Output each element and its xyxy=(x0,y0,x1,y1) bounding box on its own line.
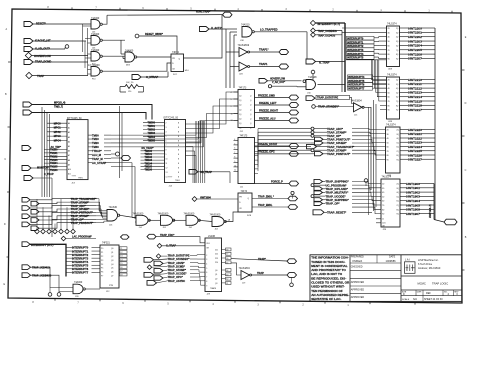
svg-text:RESET*: RESET* xyxy=(36,22,46,26)
svg-text:MPC2: MPC2 xyxy=(54,131,62,134)
wire+net labels HWT2 outputs of U09 xyxy=(400,26,436,60)
svg-text:INTERRUPT6: INTERRUPT6 xyxy=(72,267,89,271)
svg-text:Q3: Q3 xyxy=(111,260,113,262)
wire gate4 output to 74F74 xyxy=(103,63,172,71)
flip-flop 74F74 H10 xyxy=(171,51,189,76)
svg-text:TM505: TM505 xyxy=(148,139,156,142)
svg-text:HWT2207: HWT2207 xyxy=(408,57,422,61)
svg-text:TRAP_ENBL *: TRAP_ENBL * xyxy=(258,195,274,198)
wire RESET* to gate J06 xyxy=(33,23,91,25)
wire J15 output down the middle bus xyxy=(364,107,371,190)
svg-text:HWT2217: HWT2217 xyxy=(408,108,422,112)
svg-text:TRAP1*: TRAP1* xyxy=(259,48,269,52)
svg-text:P6: P6 xyxy=(101,272,103,274)
svg-text:2: 2 xyxy=(206,255,207,257)
svg-text:74AS1804: 74AS1804 xyxy=(239,267,251,270)
svg-text:A2: A2 xyxy=(68,131,70,134)
svg-text:TRAP*: TRAP* xyxy=(258,258,266,261)
net label LAC_PROGRAM* xyxy=(61,235,96,241)
svg-text:DATE: DATE xyxy=(389,256,396,259)
svg-text:TRAP_STAMP*: TRAP_STAMP* xyxy=(327,148,347,152)
svg-text:TM502: TM502 xyxy=(148,129,156,132)
net label stack TM100-TM106 xyxy=(44,146,67,172)
output connector TRAP* xyxy=(287,259,297,264)
svg-text:Q5: Q5 xyxy=(111,268,113,270)
input connector V_AD_OUT* xyxy=(24,47,50,52)
pin number boxes right of LS240 (lower) xyxy=(222,269,232,285)
wire TRAP_DATATYPE to buffer J15 xyxy=(350,97,354,103)
svg-text:74LS374: 74LS374 xyxy=(387,74,397,77)
wire+output connector FREEZE_RIGHT xyxy=(255,109,299,115)
svg-text:TRAP_DCMD*: TRAP_DCMD* xyxy=(168,264,185,268)
svg-text:TRAP_PRNTOUT*: TRAP_PRNTOUT* xyxy=(327,138,351,142)
svg-text:5: 5 xyxy=(166,136,167,138)
terminal above TRAP_ENBL* xyxy=(291,191,294,198)
input diamond C_TRAP bottom xyxy=(157,244,176,249)
wire chain3-4 xyxy=(199,220,212,221)
wire RESET_WDW* to flip-flop preset xyxy=(139,36,177,54)
svg-text:R_TRAP: R_TRAP xyxy=(319,60,330,64)
svg-text:INTERRUPT2: INTERRUPT2 xyxy=(72,253,89,257)
svg-text:MPC1: MPC1 xyxy=(54,127,62,130)
svg-text:14: 14 xyxy=(226,270,228,272)
terminal above U10 xyxy=(311,70,315,80)
svg-text:V_AD_OUT*: V_AD_OUT* xyxy=(272,81,285,84)
svg-text:APPROVED: APPROVED xyxy=(351,289,365,292)
svg-text:2: 2 xyxy=(166,123,167,125)
svg-text:INTERRUPT5: INTERRUPT5 xyxy=(348,79,365,83)
wire buffer input xyxy=(226,51,239,53)
wire bus verticals to U18 column xyxy=(226,29,237,88)
wire INTERRUPT bottom bus xyxy=(30,244,66,276)
svg-text:A10: A10 xyxy=(68,168,71,171)
svg-text:C: C xyxy=(465,169,467,172)
wire gate1 output to RUN_TRAP* rail xyxy=(103,15,108,24)
svg-text:A7: A7 xyxy=(68,154,70,157)
wire MONITOR*/C_TRAP feed xyxy=(31,168,52,237)
net label stack left of J14 (lower) RS_TRAP* xyxy=(141,147,165,171)
svg-text:HWT2227: HWT2227 xyxy=(408,158,422,162)
net HWT2084 diamond xyxy=(192,197,238,202)
input tag R_TRAP xyxy=(306,59,330,64)
input connector C_NTRAP xyxy=(132,75,159,80)
terminal TRAP_STANDBY* xyxy=(312,105,339,109)
svg-text:A11: A11 xyxy=(68,173,71,176)
buffer 74AS1804 J15 xyxy=(351,100,365,117)
wire mid vertical bus right xyxy=(374,100,377,211)
output connector TRAP1* xyxy=(279,50,289,55)
svg-text:TRAP_STANDBY*: TRAP_STANDBY* xyxy=(318,106,339,109)
svg-text:TRH1: TRH1 xyxy=(78,178,83,180)
net label TRAP1 xyxy=(259,62,268,66)
wire+output connector FREEZE_ALU xyxy=(255,117,299,123)
wire 74F74 Q to RUN_TRAP rail xyxy=(184,15,223,58)
svg-text:11: 11 xyxy=(382,219,384,221)
svg-text:TRAP_STANDBY*: TRAP_STANDBY* xyxy=(168,257,190,261)
svg-text:P1: P1 xyxy=(101,252,103,254)
svg-text:KMWeih: KMWeih xyxy=(353,259,363,263)
terminal right of TM stack xyxy=(111,152,120,156)
IC 74F173 J12 xyxy=(231,88,255,133)
net label stack into LS240 xyxy=(168,254,201,286)
wire gate J1B output xyxy=(85,288,100,290)
gate 74AS02 (2nd) xyxy=(91,33,102,50)
net label stack TRAP_* (lower) rows xyxy=(326,180,350,206)
svg-text:6: 6 xyxy=(234,148,235,150)
svg-text:TRAP1: TRAP1 xyxy=(259,62,268,66)
svg-text:TM(0..7): TM(0..7) xyxy=(54,105,63,108)
gate 74AS1000 J14 chain 1 xyxy=(133,212,151,229)
svg-text:C: C xyxy=(4,158,6,161)
wire+output connector FREEZE_DMD xyxy=(255,94,299,100)
wire M23 to 74F74 D xyxy=(137,56,171,58)
terminal circles below gate inputs xyxy=(48,288,61,297)
svg-text:CHECKED: CHECKED xyxy=(351,265,363,268)
wire U10 output to bus xyxy=(318,84,346,86)
wires tags to label stack rows xyxy=(30,199,96,229)
svg-text:18: 18 xyxy=(120,274,122,276)
svg-text:APPROVED: APPROVED xyxy=(351,281,365,284)
input connector HOVERFLOW/V_AD_OUT* pair xyxy=(259,79,286,88)
sheet border frame xyxy=(3,6,466,307)
svg-text:TRAP: TRAP xyxy=(37,74,44,78)
svg-text:Andover, MA 01810: Andover, MA 01810 xyxy=(418,266,441,270)
svg-text:A3: A3 xyxy=(68,136,70,139)
tags and terminals left of TRAP stack xyxy=(307,127,328,156)
svg-text:U_ACT1*: U_ACT1* xyxy=(211,26,222,30)
wire left vertical feeders xyxy=(42,107,50,197)
svg-text:P4: P4 xyxy=(101,264,103,266)
wire+output connector FREEZE_OPC xyxy=(255,151,299,157)
svg-text:FREEZE_OPC: FREEZE_OPC xyxy=(258,151,275,154)
gate 74AS1000 J24 chain 2 xyxy=(158,212,175,229)
svg-text:12: 12 xyxy=(120,252,122,254)
svg-text:TRAP_DCMD: TRAP_DCMD xyxy=(35,60,51,64)
svg-text:12: 12 xyxy=(166,168,168,170)
net label stack TRAP_TRANSPORT* etc xyxy=(71,197,97,225)
svg-text:TTRAP*: TTRAP* xyxy=(92,149,102,153)
svg-text:13: 13 xyxy=(120,256,122,258)
wire J16 output to NAND chain xyxy=(119,215,136,218)
svg-text:74LS374: 74LS374 xyxy=(386,124,396,127)
svg-text:MPC0: MPC0 xyxy=(54,122,62,125)
gate 74AS10 U18 xyxy=(240,24,254,42)
open diamonds row xyxy=(35,199,76,234)
svg-text:74AS08: 74AS08 xyxy=(308,76,317,79)
output connector AC_UTRAP xyxy=(111,156,131,161)
svg-text:16: 16 xyxy=(120,267,122,269)
net label stack INTERRUPT (lower) xyxy=(348,75,373,91)
svg-text:3: 3 xyxy=(166,127,167,129)
svg-text:18: 18 xyxy=(226,249,228,251)
svg-text:INTERRUPT3: INTERRUPT3 xyxy=(347,48,364,52)
wire TRAP_FRC* to LS240 clock xyxy=(156,237,205,243)
svg-text:TRAP_UCODE*: TRAP_UCODE* xyxy=(326,194,347,198)
wire LO_TRAPPED down to R_TRAP xyxy=(306,32,308,59)
svg-text:P0: P0 xyxy=(101,248,103,250)
svg-text:TM00: TM00 xyxy=(92,133,99,137)
svg-text:INTERRUPT1: INTERRUPT1 xyxy=(347,40,364,44)
svg-text:Q3: Q3 xyxy=(215,283,217,285)
svg-text:SENTATIVE OF LAC.: SENTATIVE OF LAC. xyxy=(311,297,341,301)
tags left of LS240 stack xyxy=(144,254,168,285)
svg-text:TM106: TM106 xyxy=(145,169,153,172)
wire U_ACT1* xyxy=(209,28,226,30)
wire UCODE nets xyxy=(315,31,342,93)
svg-text:10K_1%: 10K_1% xyxy=(126,82,134,84)
IC 74LS374 J29 xyxy=(381,176,400,231)
svg-text:9: 9 xyxy=(234,161,235,163)
IC4 control pins CLK/OE xyxy=(376,219,386,228)
svg-text:A4: A4 xyxy=(68,140,70,143)
svg-text:P5: P5 xyxy=(101,268,103,270)
svg-text:TRAP_DATATYPE: TRAP_DATATYPE xyxy=(317,97,338,100)
svg-text:P7: P7 xyxy=(101,276,103,278)
svg-text:PREPARED: PREPARED xyxy=(351,256,364,259)
input connector ICACHE_HIT xyxy=(24,39,51,44)
wire MPC bus rails xyxy=(32,105,152,120)
svg-text:74AS1804i: 74AS1804i xyxy=(238,44,250,47)
svg-text:74AS30: 74AS30 xyxy=(109,206,118,209)
svg-text:TRAP_OP*: TRAP_OP* xyxy=(326,202,341,206)
gate 74AS00 (4th) xyxy=(88,64,102,81)
gate 74AS00 (3rd) xyxy=(91,49,102,66)
net label stack TM00..AC_UTRAP (right of J13) xyxy=(88,133,111,165)
svg-text:74F521: 74F521 xyxy=(102,243,111,245)
svg-text:TRAP LOGIC: TRAP LOGIC xyxy=(432,282,448,286)
svg-text:TM503: TM503 xyxy=(148,132,156,135)
svg-text:TRAP_ADV*: TRAP_ADV* xyxy=(327,127,344,131)
svg-text:74LS374: 74LS374 xyxy=(387,23,397,26)
svg-text:TRAP_ASYNC: TRAP_ASYNC xyxy=(168,279,186,283)
input connector MPC bus xyxy=(23,102,66,109)
svg-text:10/08/86: 10/08/86 xyxy=(386,259,397,263)
svg-text:PTB: PTB xyxy=(109,285,114,287)
input tag GB_TRAP xyxy=(189,170,212,175)
svg-text:TRH1: TRH1 xyxy=(175,180,180,182)
svg-text:7: 7 xyxy=(166,145,167,147)
wire to buffer J19 input xyxy=(231,263,241,275)
wire chain2-3 xyxy=(173,219,186,221)
input connectors bottom-left column B xyxy=(31,201,39,230)
wires TM00-TM30 to center bundle xyxy=(111,121,204,147)
wire+output connector FREEZE_LEFT xyxy=(255,102,299,108)
svg-text:INTERRUPT2: INTERRUPT2 xyxy=(347,44,364,48)
wire TRAP1 output xyxy=(250,66,280,68)
svg-text:INTERRUPT4: INTERRUPT4 xyxy=(347,52,364,56)
svg-text:SCC: SCC xyxy=(173,74,178,76)
wire TRAP_DCMD xyxy=(33,61,88,63)
resistor J20 xyxy=(120,82,143,93)
IC 74LS374 U09 xyxy=(387,23,400,71)
input connector TRAP_UCDE4US bottom 2 xyxy=(22,273,52,278)
svg-text:TM106: TM106 xyxy=(50,169,58,172)
svg-text:P2: P2 xyxy=(101,256,103,258)
svg-text:C_TRAP: C_TRAP xyxy=(44,173,54,176)
svg-text:REV: REV xyxy=(454,292,459,294)
wire TRAP_STANDBY* to buffer xyxy=(315,106,353,108)
wire TRAP_ENBL* from FF xyxy=(252,195,288,198)
svg-text:TRAP_STAMP*: TRAP_STAMP* xyxy=(327,130,347,134)
output connector TRAP1 xyxy=(279,64,289,69)
svg-text:APPROVED: APPROVED xyxy=(351,296,365,299)
wire+net labels HWT2 outputs of U28 xyxy=(400,78,436,112)
svg-text:TRAP_ADVB*: TRAP_ADVB* xyxy=(168,261,185,265)
svg-text:TRAP: TRAP xyxy=(257,272,264,275)
svg-text:FREEZE_KSTAT: FREEZE_KSTAT xyxy=(258,143,278,146)
title block xyxy=(310,255,462,302)
svg-text:5: 5 xyxy=(206,268,207,270)
terminal RESET_WDW* xyxy=(135,32,163,38)
IC IDT7C245_SO J13 (left) xyxy=(67,118,88,185)
net label HWT19(0..7) vertical xyxy=(429,204,432,218)
svg-text:HWT19(0..7): HWT19(0..7) xyxy=(429,204,432,218)
svg-text:16: 16 xyxy=(226,258,228,260)
svg-text:6: 6 xyxy=(166,141,167,143)
wire long verticals x119-122 xyxy=(111,106,135,178)
svg-text:TRAP_PRNTOUT*: TRAP_PRNTOUT* xyxy=(327,152,351,156)
input tag TRAP_RESET* xyxy=(313,210,372,215)
wire bus to output connector xyxy=(434,220,444,223)
svg-text:RESET_WDW*: RESET_WDW* xyxy=(145,32,163,36)
IC 74F521 PTB xyxy=(100,243,119,293)
net label stack TRAP_* (middle) rows 1-8 xyxy=(327,127,355,156)
svg-text:74A000: 74A000 xyxy=(74,281,83,284)
output connector HWT bus xyxy=(444,219,457,225)
svg-text:FREEZE_DMD: FREEZE_DMD xyxy=(258,94,275,97)
gate 74AS1000 J34 chain 3 xyxy=(184,212,201,229)
wire HOVERFLOW xyxy=(32,55,88,57)
input connector C_TRAP (left) xyxy=(24,173,54,180)
svg-text:7: 7 xyxy=(234,152,235,154)
net label stack MPC0-4 xyxy=(47,122,67,142)
svg-text:ALU_M: ALU_M xyxy=(92,153,101,157)
wire R_TRAP to bus xyxy=(316,61,346,63)
net label stack left of J14 (upper) xyxy=(143,121,165,142)
svg-text:11: 11 xyxy=(234,170,236,172)
svg-text:74AS1804: 74AS1804 xyxy=(351,100,363,103)
svg-text:11: 11 xyxy=(120,248,122,250)
svg-text:SCB: SCB xyxy=(247,215,252,217)
wire TRAP1* output xyxy=(250,51,280,53)
svg-text:14: 14 xyxy=(120,259,122,261)
svg-text:SIZE: SIZE xyxy=(402,292,407,294)
pin stub boxes right of 74F521 xyxy=(120,247,128,277)
svg-text:A0: A0 xyxy=(68,122,70,125)
input connector TRAP_UCD4US bottom 1 xyxy=(22,265,50,270)
terminal above lower stack xyxy=(364,179,368,186)
svg-text:TM501: TM501 xyxy=(148,125,156,128)
svg-text:TRAPB: TRAPB xyxy=(210,287,217,290)
svg-text:INTERRUPT7: INTERRUPT7 xyxy=(72,271,89,275)
svg-text:FREEZE_LEFT: FREEZE_LEFT xyxy=(259,102,277,105)
input connector TRAP_UCD4US xyxy=(311,32,336,37)
wire+output connector FREEZE_KSTAT xyxy=(255,143,299,149)
wire buffer U23 input xyxy=(230,66,239,68)
svg-text:TM10: TM10 xyxy=(92,137,99,141)
svg-text:LAC_PROGRAM*: LAC_PROGRAM* xyxy=(72,235,92,238)
svg-text:Q6: Q6 xyxy=(111,272,113,274)
input tag TRAP_FRC* xyxy=(147,234,174,239)
IC 74F175 J11 xyxy=(234,136,259,189)
svg-text:Q1: Q1 xyxy=(111,252,113,254)
net label LO_TRAPPED xyxy=(260,27,278,31)
net label RUN_TRAP* xyxy=(196,10,211,14)
wires J14 outputs staircase up to 74F173 pins xyxy=(186,92,238,183)
wire verticals x132-135 down to NAND chain xyxy=(132,163,136,222)
svg-text:8: 8 xyxy=(234,157,235,159)
svg-text:TM500: TM500 xyxy=(148,121,156,124)
wire RUN_TRAP* rail xyxy=(107,14,222,17)
input connector TRAP_UCODE4US xyxy=(311,28,338,33)
svg-text:HWT1907: HWT1907 xyxy=(406,212,420,216)
gate 74LS02 bottom xyxy=(73,281,85,298)
svg-text:FREEZE_RIGHT: FREEZE_RIGHT xyxy=(259,109,279,112)
input connector TRAP_DCMD xyxy=(24,60,51,65)
svg-text:MPC4: MPC4 xyxy=(54,140,62,143)
svg-text:FORCE_P: FORCE_P xyxy=(271,180,283,183)
wire TRAP_ENBL from FF xyxy=(252,204,288,207)
svg-text:6: 6 xyxy=(206,272,207,274)
gate 74AS08 U10 xyxy=(303,76,317,94)
svg-text:TRAP_OPC*: TRAP_OPC* xyxy=(168,275,183,279)
wires lower TRAP stack to IC4 fan xyxy=(352,182,381,214)
buffer 74AS1804 (TRAP1*) xyxy=(238,44,250,57)
IC 74LS374 U28 xyxy=(387,74,400,123)
svg-text:11: 11 xyxy=(166,163,168,165)
svg-text:INTERRUPT1: INTERRUPT1 xyxy=(72,249,89,253)
svg-text:TRAP_DATATYPE: TRAP_DATATYPE xyxy=(168,254,190,258)
output connector RUN_TRAP* xyxy=(223,12,233,17)
svg-text:A6: A6 xyxy=(68,150,70,153)
svg-text:TM20: TM20 xyxy=(92,141,99,145)
svg-text:9: 9 xyxy=(166,154,167,156)
svg-text:TRAP_MILITARY*: TRAP_MILITARY* xyxy=(326,191,350,195)
svg-text:LISP Machine Inc.: LISP Machine Inc. xyxy=(418,258,439,262)
svg-text:INTERRUPT4: INTERRUPT4 xyxy=(72,260,89,264)
svg-text:D: D xyxy=(4,223,6,226)
svg-text:4: 4 xyxy=(206,264,207,266)
buffer 74AS1804 U23 (TRAP1) xyxy=(239,62,250,76)
svg-text:TRAP_SPHER*: TRAP_SPHER* xyxy=(327,141,347,145)
svg-text:TRAP_ENBL: TRAP_ENBL xyxy=(258,204,273,207)
svg-text:SHEET 24 OF 30: SHEET 24 OF 30 xyxy=(424,298,443,301)
svg-text:UC_PROGRAM*: UC_PROGRAM* xyxy=(326,183,348,187)
input connector RESET* xyxy=(24,22,46,27)
svg-text:10: 10 xyxy=(234,165,236,167)
svg-text:TRAP_RESET*: TRAP_RESET* xyxy=(327,210,347,214)
input connector MONITOR* xyxy=(22,166,49,171)
svg-text:6 Tech Drive: 6 Tech Drive xyxy=(418,262,433,266)
svg-text:74LS374: 74LS374 xyxy=(382,176,392,179)
svg-text:SCALE: SCALE xyxy=(402,298,410,301)
input connector U_ACT1* xyxy=(200,26,223,32)
svg-text:13: 13 xyxy=(166,172,168,174)
input tag TRAP_DATATYPE xyxy=(306,95,350,100)
svg-text:7: 7 xyxy=(206,277,207,279)
svg-text:Z22: Z22 xyxy=(215,254,218,256)
svg-text:A1: A1 xyxy=(68,127,70,130)
wire staircase bundle to U28 pins xyxy=(371,60,386,110)
svg-text:ICACHE_HIT: ICACHE_HIT xyxy=(35,39,51,43)
gate 74AS1000 J04 chain 4 xyxy=(210,214,227,231)
wire TRAP xyxy=(32,75,88,77)
svg-text:INTERRUPT0: INTERRUPT0 xyxy=(72,246,89,250)
svg-text:Z24: Z24 xyxy=(215,262,218,264)
svg-text:10: 10 xyxy=(166,159,168,161)
input connector INTERRUPT (0..7) xyxy=(310,20,340,25)
svg-text:TRAP_STAMP*: TRAP_STAMP* xyxy=(168,268,186,272)
